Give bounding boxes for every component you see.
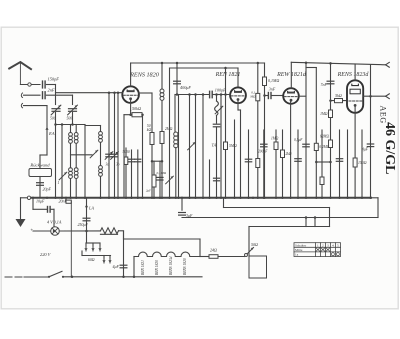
wire x234.5: [234, 120, 236, 198]
wire V3 grid right: [299, 95, 306, 97]
wire to V3 grid: [265, 95, 269, 97]
wire R1 left to bus: [123, 115, 125, 198]
wire V3 cathode down: [290, 100, 292, 198]
wire y226.5: [249, 226, 330, 228]
wire Rueckwand top: [39, 155, 41, 169]
wire V1 plate right: [139, 92, 152, 94]
wire link y161.2: [152, 160, 162, 162]
svg-text:2nF: 2nF: [48, 88, 55, 93]
svg-text:200μF: 200μF: [258, 150, 268, 154]
wire link y125.5: [85, 125, 101, 127]
svg-text:100pF: 100pF: [215, 87, 226, 92]
svg-text:1MΩ: 1MΩ: [320, 112, 328, 116]
resistor R8 0.2MOhm: [315, 68, 317, 199]
wire R15 to rheostat: [218, 256, 244, 258]
wire ground link: [21, 197, 28, 199]
svg-text:50kΩ: 50kΩ: [132, 106, 141, 111]
svg-text:400μF: 400μF: [180, 85, 191, 90]
resistor R3 50kOhm anode load: [150, 133, 154, 145]
svg-text:EA: EA: [48, 131, 55, 136]
resistor R5 5MOhm: [225, 68, 227, 198]
capacitor C15: [297, 130, 299, 198]
choke coil L5: [161, 63, 163, 89]
wire grid row y94.5: [175, 94, 209, 96]
input terminal 3: [21, 103, 22, 107]
svg-text:RENS 1820: RENS 1820: [183, 258, 187, 276]
resistor R17 1MOhm: [275, 130, 277, 198]
ground: [16, 219, 26, 227]
resistor R18 2kOhm: [282, 130, 284, 198]
wire x118: [117, 93, 119, 198]
svg-text:20pF: 20pF: [43, 187, 52, 192]
wire x182 drop: [181, 198, 183, 210]
capacitor C10 TA: [216, 127, 218, 198]
wire heater top: [124, 238, 201, 240]
capacitor C13 3nF: [267, 93, 269, 99]
wire drops y94.5 to bus: [189, 95, 191, 199]
ground bus: [29, 197, 371, 199]
wire V2 anode: [237, 68, 239, 87]
wire L1 mid links: [70, 144, 72, 168]
wire L3 mid: [100, 143, 102, 166]
connector pins top: [85, 246, 87, 251]
wire R1 row: [124, 114, 143, 116]
svg-text:kΩ: kΩ: [147, 128, 152, 132]
wire second rail right y67.5: [306, 67, 316, 69]
capacitor C12 200uF: [263, 130, 265, 198]
svg-text:Schalter: Schalter: [295, 243, 307, 247]
arrow EA: [46, 127, 48, 132]
capacitor C17 4uF: [370, 65, 372, 198]
wire L4 to bus: [100, 177, 102, 198]
wire x315 stub: [314, 218, 316, 227]
wire C3 down to bus: [55, 113, 57, 199]
svg-text:3nF: 3nF: [269, 87, 276, 92]
svg-text:TA: TA: [212, 143, 217, 148]
wire coil stem L1a: [70, 125, 72, 133]
input terminal 2: [21, 93, 22, 97]
wire V3 anode up: [290, 62, 292, 88]
svg-text:REN 1821: REN 1821: [141, 260, 145, 276]
wire V1 cathode down: [130, 99, 132, 111]
wire top bus right: [291, 62, 385, 65]
svg-text:RENS 1823d: RENS 1823d: [337, 72, 370, 78]
svg-text:62MΩ: 62MΩ: [320, 135, 330, 139]
svg-text:1a: 1a: [295, 253, 299, 257]
resistor R14 mains dropper: [101, 228, 119, 234]
wire y217: [182, 217, 378, 219]
svg-text:RENS 1820: RENS 1820: [129, 72, 160, 79]
wire C2 to tuning cap 2: [46, 94, 72, 96]
wire second rail y68: [170, 67, 239, 69]
wire pins row: [82, 255, 111, 257]
switch contact 1: [59, 172, 67, 180]
svg-text:24Ω: 24Ω: [210, 248, 217, 253]
antenna A: [9, 62, 31, 69]
bus terminal: [27, 196, 30, 199]
svg-text:500: 500: [67, 117, 73, 121]
wire top bus left y63: [131, 62, 265, 64]
wire R1 right to bus: [142, 115, 144, 198]
coil L4: [99, 166, 103, 170]
capacitor C24 3uF: [179, 212, 186, 214]
capacitor C1 150pF: [42, 81, 44, 88]
capacitor block a: [131, 150, 133, 198]
box Rueckwand: [29, 169, 52, 177]
wire x329.5 riser: [329, 208, 331, 227]
trimmer capacitor 3b: [114, 93, 116, 198]
mains switch: [5, 276, 12, 278]
wire V2 cathode down: [237, 100, 239, 111]
resistor R6: [257, 63, 259, 198]
wire x62 to bus: [61, 125, 63, 199]
wire x169.5 riser: [169, 68, 171, 198]
resistor R7 0.1MOhm: [263, 77, 267, 86]
svg-text:150pF: 150pF: [48, 77, 60, 82]
capacitor block b: [137, 150, 139, 198]
wire drop 400uF x177: [176, 63, 178, 95]
svg-text:500: 500: [50, 117, 56, 121]
svg-text:AEG: AEG: [379, 106, 388, 124]
wire link y124.5: [56, 124, 86, 126]
wire V1 grid left: [56, 92, 123, 94]
resistor R13 150Ohm: [353, 158, 357, 167]
wire x362: [361, 130, 363, 198]
arrow LA: [86, 198, 88, 231]
svg-text:1MΩ: 1MΩ: [271, 137, 279, 141]
svg-text:3: 3: [327, 244, 329, 248]
wire chassis drop: [70, 202, 72, 277]
coil L3: [100, 126, 102, 132]
wire antenna to C1: [20, 84, 40, 86]
wire x178.5 drop: [178, 95, 180, 199]
wire y207.5: [224, 207, 330, 209]
wire mains to heater: [63, 276, 202, 278]
wire terminal2 to C2: [24, 94, 41, 96]
svg-text:7nF: 7nF: [321, 82, 328, 87]
capacitor C9 100pF: [209, 91, 211, 97]
trimmer capacitor 3a: [108, 93, 110, 198]
svg-text:Mitte: Mitte: [295, 248, 303, 252]
tube V2 REN 1821: [230, 87, 246, 103]
svg-text:4μF: 4μF: [113, 264, 120, 269]
wire dropper to heater loop: [123, 231, 125, 277]
svg-text:46 G/GL: 46 G/GL: [382, 122, 397, 175]
svg-text:RENS 1823d: RENS 1823d: [169, 256, 173, 276]
svg-text:1: 1: [58, 181, 60, 185]
potentiometer P1: [215, 101, 219, 115]
wire grid V4: [331, 100, 348, 102]
svg-text:REN 1821: REN 1821: [215, 72, 241, 78]
coil L2b: [74, 168, 78, 172]
resistor R15 24Ohm: [209, 255, 218, 259]
svg-text:60Ω: 60Ω: [88, 258, 95, 262]
wire x209.5: [209, 160, 211, 198]
wire C4 down to link: [72, 113, 74, 125]
wire x221 drop: [220, 95, 222, 199]
wire bus extension: [370, 197, 378, 199]
svg-text:3a: 3a: [106, 163, 110, 167]
resistor R4 0.1MOhm: [153, 161, 155, 175]
svg-text:2kΩ: 2kΩ: [286, 152, 292, 156]
capacitor C7: [159, 161, 161, 198]
wire V1 anode up: [130, 63, 132, 86]
variable capacitor C4 500pF: [69, 108, 77, 110]
svg-text:LA: LA: [88, 206, 94, 211]
svg-text:2μF: 2μF: [146, 189, 151, 193]
wire x306 stub: [305, 218, 307, 227]
tube V4 RENS 1823d: [347, 80, 363, 113]
wire top corner x264.5: [264, 63, 266, 96]
svg-text:220 V: 220 V: [40, 252, 52, 257]
tube V1 RENS 1820: [122, 86, 139, 103]
rheostat R16 50Ohm: [244, 247, 253, 256]
tube V3 REW 1821: [283, 88, 299, 104]
coil L1a: [69, 133, 73, 137]
output terminal T1: [386, 62, 390, 64]
svg-text:4: 4: [332, 244, 334, 248]
arrow coupling: [166, 176, 174, 184]
wire x347.5: [347, 130, 349, 198]
wire link y162: [316, 161, 330, 163]
wire V4 screen right: [363, 95, 385, 97]
coil L1b: [74, 133, 78, 137]
capacitor C18: [339, 130, 341, 198]
svg-text:5MΩ: 5MΩ: [229, 144, 237, 148]
resistor R6a 0.1MOhm: [256, 93, 260, 100]
switch contact 4: [188, 142, 196, 150]
resistor R11 0.2MOhm: [329, 140, 333, 148]
connector pins bottom: [103, 258, 105, 263]
capacitor C14 0.5uF: [303, 143, 309, 145]
wire mid tap: [71, 154, 93, 156]
svg-text:5kΩ: 5kΩ: [335, 93, 342, 98]
svg-text:250μF: 250μF: [78, 222, 89, 227]
variable capacitor C3 500pF: [52, 108, 60, 110]
svg-text:4μF: 4μF: [362, 148, 369, 152]
resistor R2 2MOhm: [160, 132, 164, 144]
wire L2 to bus: [70, 179, 72, 198]
wire x85 riser: [84, 125, 86, 199]
wire V4 anode up: [354, 64, 356, 80]
switch position table: [294, 243, 341, 257]
wire x306 chain: [305, 63, 307, 198]
capacitor C11: [248, 130, 250, 198]
capacitor C2 2nF: [42, 92, 44, 99]
svg-text:MΩ: MΩ: [249, 94, 256, 98]
wire heater out: [200, 256, 209, 258]
coil L6 TA: [174, 95, 176, 133]
wire lamp to resistor: [59, 230, 100, 232]
wire x249 riser: [248, 227, 250, 257]
heater chain: [133, 257, 135, 277]
svg-text:10μF: 10μF: [36, 199, 45, 204]
wire C9 to V2 grid: [213, 94, 230, 96]
wire x378 riser: [377, 198, 379, 218]
capacitor C16 7nF: [327, 80, 334, 82]
svg-text:5: 5: [337, 244, 339, 248]
wire C1 to tuning cap: [46, 84, 55, 86]
svg-text:2MΩ: 2MΩ: [165, 127, 173, 131]
capacitor C10b: [214, 177, 220, 179]
wire x330.5 chain top: [330, 63, 332, 198]
svg-text:2: 2: [322, 244, 324, 248]
capacitor C22 250uF: [83, 217, 90, 219]
capacitor C19 20pF: [39, 177, 41, 198]
switch contact 2: [90, 150, 98, 158]
resistor R9: [321, 130, 323, 198]
wire pins to lamp node: [86, 231, 88, 243]
capacitor C23 4uF: [120, 264, 127, 266]
output terminal T2: [386, 94, 390, 96]
capacitor C8 400uF: [174, 80, 181, 82]
wire terminal3 down EA: [24, 105, 48, 107]
resistor R10 1MOhm: [329, 110, 333, 118]
wire x223.5 stub: [223, 198, 225, 208]
svg-text:REN 1820: REN 1820: [155, 260, 159, 276]
resistor R6b: [256, 159, 260, 168]
wire V4 cathode down: [354, 105, 356, 198]
wire coil stem L1b: [75, 125, 77, 133]
svg-text:1: 1: [317, 244, 319, 248]
svg-text:50Ω: 50Ω: [251, 242, 258, 247]
coil L2a: [69, 168, 73, 172]
svg-text:3μF: 3μF: [186, 213, 193, 218]
ballast box: [249, 256, 267, 278]
